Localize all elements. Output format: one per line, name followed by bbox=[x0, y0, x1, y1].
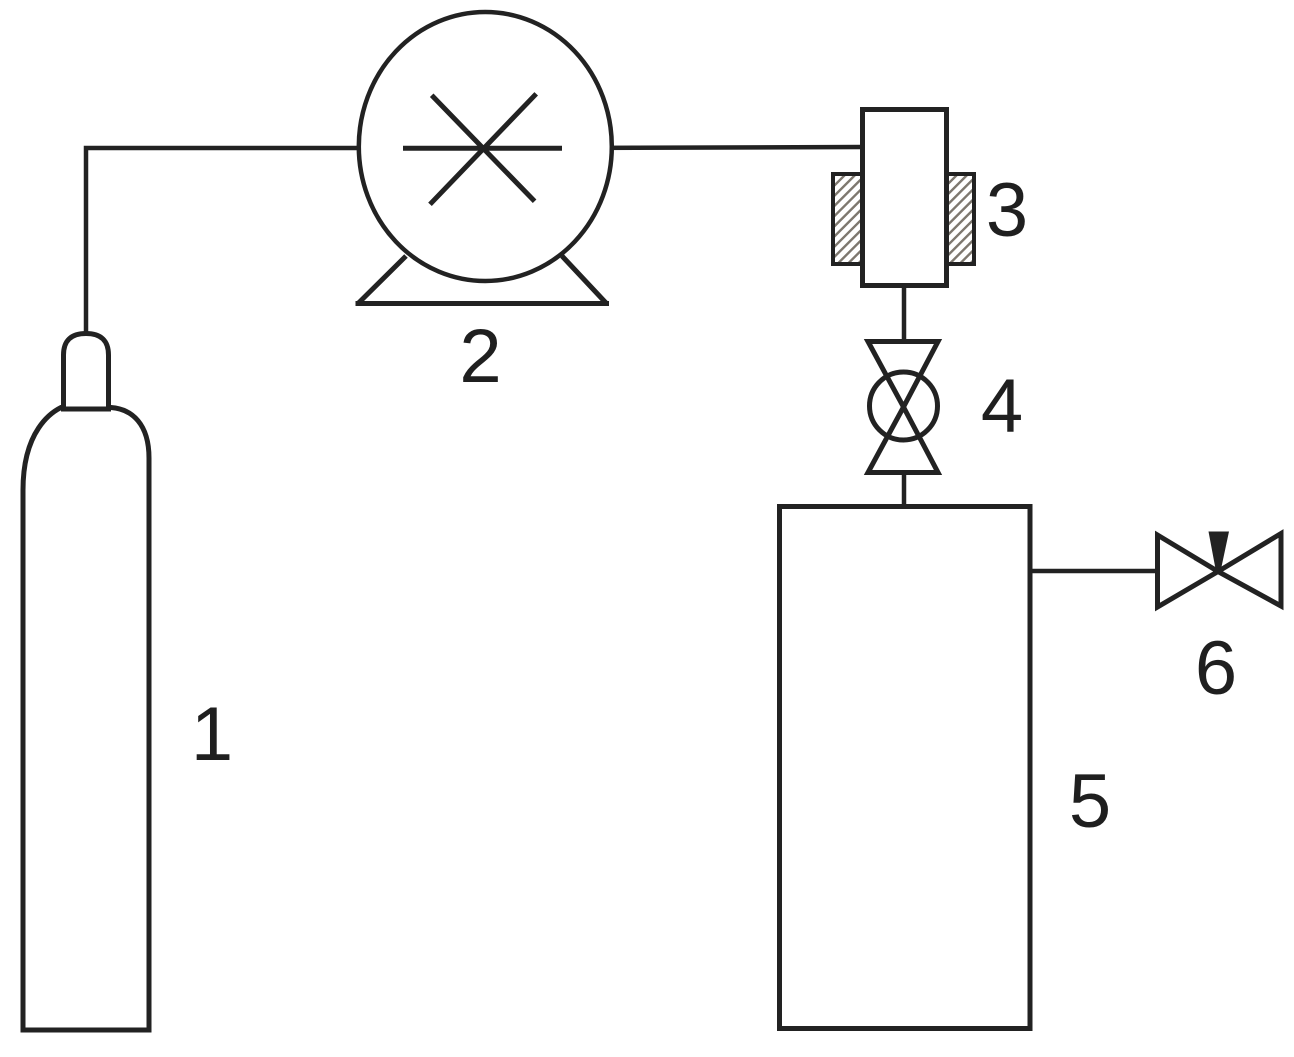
svg-text:1: 1 bbox=[191, 692, 233, 777]
svg-text:6: 6 bbox=[1195, 626, 1237, 711]
svg-text:2: 2 bbox=[459, 314, 501, 399]
svg-text:4: 4 bbox=[981, 364, 1023, 449]
svg-text:3: 3 bbox=[986, 168, 1028, 253]
svg-text:5: 5 bbox=[1069, 759, 1111, 844]
